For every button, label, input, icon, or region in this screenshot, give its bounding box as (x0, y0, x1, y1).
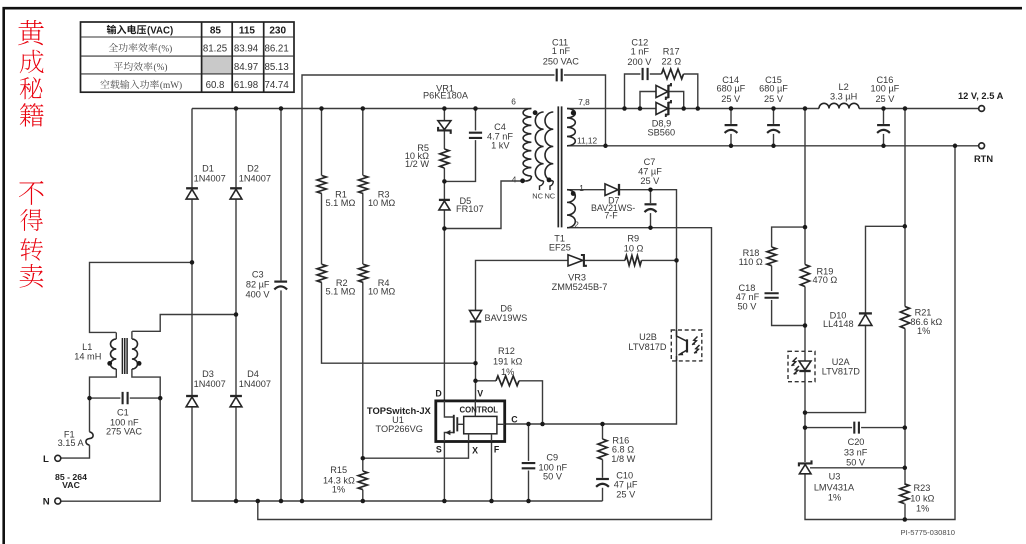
svg-text:C: C (511, 415, 518, 425)
svg-text:LTV817D: LTV817D (822, 367, 860, 377)
inductor L2 (819, 82, 859, 110)
svg-text:50 V: 50 V (543, 472, 563, 482)
terminal L (43, 454, 61, 465)
svg-text:680 µF: 680 µF (717, 84, 746, 94)
diode D2 (230, 163, 271, 199)
wire VR3 R9 line sense (476, 260, 677, 401)
svg-text:25 V: 25 V (764, 94, 784, 104)
wire current limit resistors R3 R4 R15 (362, 109, 364, 502)
resistor R17 (661, 47, 683, 81)
resistor R15 (323, 465, 369, 494)
capacitor C7 (638, 157, 662, 213)
diode D10 (823, 310, 872, 329)
svg-text:50 V: 50 V (737, 302, 757, 312)
svg-text:1 nF: 1 nF (552, 46, 571, 56)
svg-text:6: 6 (511, 97, 516, 107)
svg-text:50 V: 50 V (846, 457, 866, 467)
svg-text:1%: 1% (828, 492, 841, 502)
svg-text:86.21: 86.21 (264, 43, 288, 54)
diode D8 (656, 85, 668, 97)
resistor R1 (316, 176, 356, 209)
svg-text:3.3 µH: 3.3 µH (830, 91, 857, 101)
svg-text:1%: 1% (916, 503, 929, 513)
wire D8 bypass loop (640, 92, 684, 109)
capacitor C9 (521, 453, 568, 482)
svg-text:C20: C20 (848, 437, 865, 447)
svg-text:U3: U3 (829, 472, 841, 482)
capacitor C3 (245, 270, 288, 300)
resistor R16 (596, 435, 635, 464)
svg-text:TOP266VG: TOP266VG (376, 424, 423, 434)
wire C20 branch (805, 427, 905, 429)
wire AC2 to choke (132, 315, 236, 332)
svg-text:FR107: FR107 (456, 204, 484, 214)
capacitor C14 (717, 75, 746, 134)
svg-text:D2: D2 (247, 163, 259, 173)
resistor R12 (493, 346, 522, 387)
svg-text:S: S (436, 445, 442, 455)
transformer T1 (520, 106, 575, 252)
svg-text:1N4007: 1N4007 (239, 379, 271, 389)
capacitor C11 (543, 38, 579, 83)
svg-text:R9: R9 (627, 234, 639, 244)
svg-text:NC: NC (544, 192, 555, 201)
svg-text:82 µF: 82 µF (246, 279, 270, 289)
svg-text:100 µF: 100 µF (871, 84, 900, 94)
svg-text:PI-5775-030810: PI-5775-030810 (901, 528, 955, 537)
svg-text:60.8: 60.8 (206, 80, 225, 91)
TOPSwitch U1 (367, 389, 518, 456)
wire 12V secondary rail (567, 108, 979, 110)
svg-text:D3: D3 (202, 369, 214, 379)
svg-text:47 nF: 47 nF (736, 292, 760, 302)
resistor R18 (739, 247, 778, 267)
wire R12 to control (476, 381, 543, 424)
wire C7 vertical (650, 190, 652, 228)
svg-text:C9: C9 (546, 453, 558, 463)
optocoupler U2A (788, 351, 860, 381)
shunt regulator U3 (799, 460, 855, 502)
svg-text:ZMM5245B-7: ZMM5245B-7 (552, 282, 608, 292)
svg-text:D4: D4 (247, 369, 259, 379)
svg-text:LTV817D: LTV817D (628, 342, 666, 352)
svg-text:680 µF: 680 µF (759, 84, 788, 94)
resistor R23 (898, 483, 934, 513)
svg-text:83.94: 83.94 (234, 43, 259, 54)
svg-text:74.74: 74.74 (264, 80, 289, 91)
wire D1-D3 vertical and B- rail (192, 109, 603, 502)
zener VR3 (552, 255, 608, 292)
svg-text:47 µF: 47 µF (614, 480, 638, 490)
resistor R3 (357, 176, 395, 209)
svg-text:D1: D1 (202, 163, 214, 173)
svg-text:81.25: 81.25 (203, 43, 227, 54)
svg-text:P6KE180A: P6KE180A (423, 91, 469, 101)
svg-text:L1: L1 (82, 342, 92, 352)
svg-text:V: V (477, 389, 483, 399)
TVS VR1 (423, 84, 469, 134)
wire F pin (491, 441, 493, 502)
svg-text:7-F: 7-F (604, 210, 618, 220)
svg-text:5.1 MΩ: 5.1 MΩ (325, 198, 355, 208)
wire C15 vertical (773, 109, 775, 146)
capacitor C18 (736, 283, 780, 312)
svg-text:25 V: 25 V (721, 94, 741, 104)
svg-text:250 VAC: 250 VAC (543, 57, 579, 67)
capacitor C15 (759, 75, 788, 134)
svg-text:470 Ω: 470 Ω (813, 275, 838, 285)
wire C16 vertical (883, 109, 885, 146)
svg-text:R23: R23 (914, 483, 931, 493)
wire AC1 to choke (90, 262, 193, 332)
wire C1 branch (90, 397, 161, 399)
wire R18 C18 branch (772, 227, 805, 325)
svg-text:5.1 MΩ: 5.1 MΩ (325, 287, 355, 297)
svg-text:R21: R21 (915, 307, 932, 317)
svg-text:R17: R17 (663, 47, 680, 57)
wire C9 vertical (528, 424, 530, 501)
wire D2-D4 vertical (235, 109, 237, 502)
watermark text 2 (19, 181, 44, 288)
svg-text:400 V: 400 V (245, 289, 270, 299)
svg-text:RTN: RTN (974, 154, 993, 164)
svg-text:191 kΩ: 191 kΩ (493, 357, 522, 367)
terminal N (43, 497, 61, 508)
svg-text:N: N (43, 497, 50, 508)
svg-text:EF25: EF25 (549, 242, 571, 252)
wire bias winding pin2 to source bus (258, 228, 712, 520)
capacitor C12 (627, 37, 652, 81)
watermark text 1 (18, 20, 44, 127)
svg-text:(%): (%) (158, 43, 172, 54)
svg-text:1N4007: 1N4007 (239, 173, 271, 183)
svg-text:LL4148: LL4148 (823, 319, 854, 329)
svg-text:1: 1 (579, 183, 584, 193)
svg-text:L: L (43, 454, 49, 465)
resistor R21 (899, 307, 942, 337)
wire C4 branch (444, 109, 475, 182)
svg-text:(mW): (mW) (160, 80, 182, 91)
wire line sense resistors R1 R2 (322, 109, 476, 364)
svg-text:1%: 1% (917, 326, 930, 336)
diode D9 (648, 100, 676, 137)
wire bias winding pin1 (505, 190, 677, 424)
wire feedback divider vertical from 12V (805, 109, 955, 520)
svg-text:110 Ω: 110 Ω (739, 257, 763, 267)
svg-text:D6: D6 (500, 304, 512, 314)
svg-text:X: X (472, 445, 478, 455)
svg-text:275 VAC: 275 VAC (106, 427, 142, 437)
svg-text:1%: 1% (332, 484, 345, 494)
svg-text:SB560: SB560 (648, 127, 676, 137)
svg-text:22 Ω: 22 Ω (661, 57, 681, 67)
svg-text:NC: NC (532, 192, 543, 201)
svg-text:CONTROL: CONTROL (460, 406, 499, 415)
resistor R2 (316, 264, 356, 296)
wire snubber C12 R17 loop (625, 74, 698, 109)
fuse F1 (58, 429, 94, 448)
svg-text:115: 115 (239, 25, 256, 36)
svg-text:25 V: 25 V (875, 94, 895, 104)
svg-text:C1: C1 (117, 407, 129, 417)
diode D7 (591, 184, 635, 221)
svg-text:10 Ω: 10 Ω (624, 243, 644, 253)
svg-text:4: 4 (512, 174, 517, 184)
svg-text:R15: R15 (330, 465, 347, 475)
svg-text:1%: 1% (501, 367, 514, 377)
wire R16 C10 vertical (602, 424, 604, 501)
output terminal 12V (958, 91, 1004, 112)
diode D1 (186, 163, 226, 199)
svg-text:6.8 Ω: 6.8 Ω (612, 445, 634, 455)
svg-text:10 MΩ: 10 MΩ (368, 198, 395, 208)
wire X pin (363, 441, 469, 459)
diode D4 (230, 369, 271, 407)
diode D3 (186, 369, 226, 407)
svg-text:11,12: 11,12 (577, 136, 598, 146)
wire S pin (443, 441, 445, 502)
wire RTN rail (567, 145, 979, 147)
svg-text:U2B: U2B (639, 332, 657, 342)
svg-text:25 V: 25 V (616, 490, 636, 500)
svg-text:1N4007: 1N4007 (194, 379, 226, 389)
svg-text:10 MΩ: 10 MΩ (368, 287, 395, 297)
wire D10 branch (805, 226, 905, 412)
svg-text:2: 2 (574, 220, 579, 230)
wire choke right bottom lead (60, 369, 160, 501)
wire B+ top rail (192, 108, 531, 110)
svg-text:230: 230 (269, 25, 286, 36)
svg-text:85: 85 (210, 25, 222, 36)
data table (81, 22, 295, 92)
svg-text:200 V: 200 V (627, 57, 652, 67)
svg-text:1 kV: 1 kV (491, 141, 510, 151)
common mode choke L1 (74, 331, 141, 374)
wire choke left bottom lead (60, 369, 116, 458)
svg-text:7,8: 7,8 (578, 97, 590, 107)
svg-text:14 mH: 14 mH (74, 352, 101, 362)
resistor R4 (357, 264, 395, 296)
wire transformer pin4 to clamp (444, 181, 525, 229)
svg-text:C3: C3 (252, 270, 264, 280)
capacitor C4 (468, 122, 514, 151)
wire C3 vertical (280, 109, 282, 502)
svg-text:R12: R12 (498, 346, 515, 356)
capacitor C16 (871, 75, 900, 134)
capacitor C10 (595, 470, 638, 499)
svg-text:F: F (494, 445, 500, 455)
svg-text:(%): (%) (154, 62, 168, 73)
diode D5 (439, 196, 484, 214)
svg-text:C4: C4 (494, 122, 506, 132)
input voltage label (55, 472, 87, 490)
svg-text:12 V, 2.5 A: 12 V, 2.5 A (958, 91, 1004, 101)
svg-text:61.98: 61.98 (234, 80, 258, 91)
svg-text:84.97: 84.97 (234, 62, 258, 73)
svg-text:25 V: 25 V (640, 176, 660, 186)
capacitor C20 (844, 421, 868, 468)
svg-text:85.13: 85.13 (264, 62, 288, 73)
svg-text:BAV19WS: BAV19WS (485, 313, 528, 323)
diode D6 (470, 304, 528, 324)
svg-text:1 nF: 1 nF (631, 47, 650, 57)
wire Y-capacitor C11 path (302, 75, 606, 501)
wire clamp vertical VR1 R5 D5 to drain (443, 109, 445, 402)
svg-text:33 nF: 33 nF (844, 448, 868, 458)
svg-text:1/8 W: 1/8 W (611, 454, 635, 464)
svg-text:1/2 W: 1/2 W (405, 159, 429, 169)
svg-text:VAC: VAC (62, 480, 80, 490)
svg-text:47 µF: 47 µF (638, 166, 662, 176)
wire R21 R23 vertical from 12V (904, 109, 906, 520)
capacitor C1 (106, 391, 142, 437)
svg-text:LMV431A: LMV431A (814, 482, 855, 492)
svg-text:(VAC): (VAC) (147, 25, 173, 36)
optocoupler U2B (628, 330, 701, 361)
svg-text:3.15 A: 3.15 A (58, 438, 85, 448)
resistor R19 (799, 265, 838, 287)
resistor R9 (624, 234, 644, 267)
svg-text:1N4007: 1N4007 (194, 173, 226, 183)
output terminal RTN (974, 143, 993, 164)
resistor R5 (405, 143, 451, 169)
wire U3 reference (810, 467, 905, 469)
pin label NC NC (532, 192, 556, 201)
svg-text:D: D (435, 389, 441, 399)
wire C14 vertical (730, 109, 732, 146)
svg-text:10 kΩ: 10 kΩ (910, 493, 934, 503)
